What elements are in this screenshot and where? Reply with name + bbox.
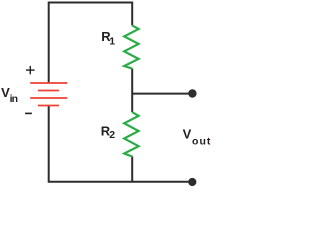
svg-text:in: in	[10, 93, 18, 105]
svg-text:V: V	[183, 127, 192, 142]
svg-text:1: 1	[109, 36, 115, 48]
svg-text:out: out	[192, 135, 211, 147]
svg-text:2: 2	[109, 129, 115, 141]
